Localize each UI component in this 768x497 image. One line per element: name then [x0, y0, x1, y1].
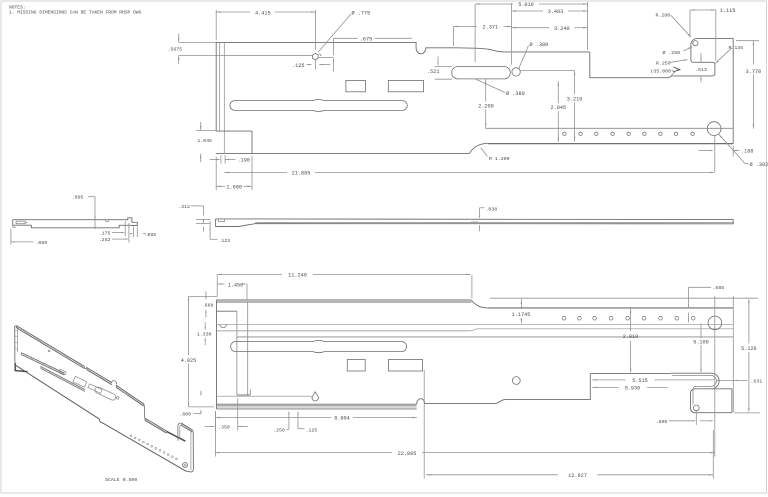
svg-text:(35.000°: (35.000°: [651, 68, 675, 74]
svg-text:NOTES:: NOTES:: [9, 4, 26, 10]
isometric view: small hole: [48, 350, 50, 352]
dim 21.885: [224, 171, 287, 173]
svg-text:.125: .125: [306, 427, 318, 433]
svg-text:Ø .775: Ø .775: [352, 10, 371, 17]
bottom view: hole D.302 mirror: [708, 316, 722, 330]
dim 1.450: [217, 283, 224, 285]
svg-text:SCALE 0.500: SCALE 0.500: [105, 477, 137, 483]
svg-text:Ø .250: Ø .250: [663, 49, 681, 56]
dim 2.371: [453, 26, 477, 28]
bottom view: inner line connector: [470, 329, 479, 331]
dim 1.330: [204, 322, 206, 329]
bottom view: step up at right: [589, 374, 591, 400]
svg-text:2.819: 2.819: [623, 334, 639, 340]
bottom view: rectangular cutout 1: [347, 360, 365, 372]
isometric view: thin slot 1 hatched: [21, 353, 64, 373]
svg-text:5.126: 5.126: [741, 346, 757, 352]
dim 3.483: [511, 10, 543, 12]
svg-text:.5675: .5675: [168, 46, 183, 52]
bottom view: keyhole cutout: [312, 392, 318, 401]
left edge view: inner tick: [25, 222, 27, 224]
bottom view: bottom edge right of bump: [425, 400, 591, 404]
svg-text:.252: .252: [99, 237, 111, 243]
dim 2.045 vertical: [557, 81, 559, 103]
isometric view: bottom edge: [15, 365, 186, 471]
dim .668: [205, 291, 207, 298]
bottom view: flange edge lines: [217, 395, 312, 397]
left view extension ticks: [124, 221, 126, 236]
dim 3.770 vertical: [736, 40, 759, 42]
bottom view: hook curl outer: [671, 373, 732, 413]
bottom view: top edge double line left portion: [217, 299, 472, 301]
isometric view: top folded edge hatched segment 3: [116, 385, 144, 404]
svg-text:.085: .085: [145, 232, 157, 238]
isometric view: small rect c: [88, 384, 102, 394]
svg-text:.521: .521: [427, 69, 439, 75]
isometric view: top folded edge hatched segment 5: [182, 423, 193, 430]
top view: rectangular cutout 1: [346, 80, 366, 91]
bottom view: inner line dark left: [217, 330, 470, 332]
isometric view: small rect b: [73, 376, 87, 387]
bottom view: small u-notch: [220, 324, 227, 327]
dim .5675: [179, 41, 217, 43]
leader D.380 upper: [519, 46, 529, 69]
isometric view: top folded edge hatched segment 2: [87, 368, 112, 383]
svg-text:1.450: 1.450: [228, 283, 244, 289]
dim 1.1745 vertical: [520, 299, 522, 309]
top view: small pierced hole at flange end: [312, 53, 318, 60]
left edge view: left end tab: [13, 225, 16, 227]
svg-text:.095: .095: [72, 195, 84, 201]
svg-text:1. MISSING DIMENSIONS CAN BE T: 1. MISSING DIMENSIONS CAN BE TAKEN FROM …: [9, 10, 142, 16]
top view: right edge: [732, 38, 734, 143]
slot extension lines: [434, 66, 452, 68]
isometric view: right end cap: [186, 430, 193, 472]
dim 11.240: [217, 274, 282, 276]
svg-text:1.1745: 1.1745: [512, 312, 531, 318]
dim .123: [209, 221, 211, 239]
bottom view: bend line light: [217, 323, 734, 325]
dim .521: [437, 56, 439, 64]
bottom view: rectangular cutout 2: [389, 360, 423, 372]
top view: rectangular cutout 2: [388, 80, 423, 91]
isometric view: top edge tab bump: [112, 381, 117, 385]
isometric view: step at right: [144, 404, 145, 418]
dim 1.045: [196, 130, 216, 132]
dim .631: [717, 380, 721, 381]
isometric view: stadium slot: [95, 387, 116, 400]
dim .038: [479, 208, 481, 218]
isometric view: hook curl: [178, 423, 181, 441]
dim .089: [10, 229, 12, 245]
isometric view: hook arm lower edge thick: [167, 431, 186, 441]
bottom view: tab bump: [417, 399, 425, 404]
svg-text:.188: .188: [741, 149, 753, 155]
svg-text:3.210: 3.210: [567, 96, 583, 102]
top view: row of small holes: [563, 132, 566, 135]
svg-text:22.885: 22.885: [398, 451, 417, 457]
svg-text:11.240: 11.240: [288, 273, 307, 279]
dim 3.210 vertical: [574, 71, 576, 95]
extension line from hole D.380 to 3.210: [520, 70, 574, 72]
bottom view: inner line right: [478, 328, 733, 330]
left edge view: inner flange rectangle: [16, 221, 25, 224]
top view: bend line left 2: [223, 42, 225, 153]
svg-text:.125: .125: [292, 63, 304, 69]
dim 5.936: [592, 387, 597, 389]
svg-text:R.135: R.135: [729, 45, 744, 51]
isometric view: left flange tab thick L: [15, 363, 27, 372]
left edge view: mid notch tick: [106, 220, 109, 222]
top view: left edge: [215, 42, 217, 131]
dim .188: [699, 149, 713, 151]
dim 1.115: [690, 9, 716, 11]
svg-text:.350: .350: [218, 425, 230, 431]
top view: foot right edge: [251, 131, 253, 154]
svg-text:8.904: 8.904: [334, 416, 350, 422]
svg-text:5.100: 5.100: [693, 339, 709, 345]
bottom view: bend line dark: [237, 336, 733, 338]
dim .513: [700, 53, 702, 63]
dim 4.415: [216, 11, 315, 13]
top view: slot cutout right (stadium): [452, 67, 511, 79]
isometric view: top folded edge hatched segment 1: [16, 326, 84, 367]
leader D.302: [718, 134, 745, 164]
svg-text:.250: .250: [273, 427, 285, 433]
svg-text:R 1.200: R 1.200: [489, 156, 510, 162]
dim 8.904: [216, 417, 332, 419]
dim 2.819 vertical: [630, 308, 632, 331]
top view: flange inner line: [216, 55, 312, 57]
isometric view: top folded edge hatched segment 4: [145, 418, 167, 431]
svg-text:.805: .805: [656, 419, 668, 425]
long edge view: left notch: [218, 219, 224, 222]
dim 2.200 vertical: [485, 79, 487, 101]
long edge view: bottom line right portion: [255, 222, 733, 224]
dim 5.010: [475, 3, 513, 5]
svg-text:3.483: 3.483: [548, 9, 564, 15]
svg-text:1.045: 1.045: [197, 138, 212, 144]
top view: right step notch outline: [590, 38, 733, 77]
svg-text:1.115: 1.115: [720, 8, 736, 14]
dim 5.126 vertical: [748, 300, 750, 344]
svg-text:.312: .312: [178, 204, 190, 210]
bottom view: long center slot: [231, 340, 407, 352]
isometric view: keyhole circle: [116, 397, 119, 400]
svg-text:1.330: 1.330: [197, 332, 212, 338]
top view: long center slot: [230, 100, 407, 112]
bottom view: hook arm top edge: [590, 373, 670, 375]
long edge view: strip outline: [216, 219, 734, 227]
dim 3.240: [511, 27, 549, 29]
svg-text:Ø .380: Ø .380: [530, 41, 549, 48]
svg-text:12.927: 12.927: [568, 473, 587, 479]
svg-text:.089: .089: [36, 240, 48, 246]
bottom view: left edge: [216, 300, 218, 409]
top view: bottom edge right portion: [488, 143, 733, 145]
svg-text:2.200: 2.200: [478, 104, 494, 110]
svg-text:2.045: 2.045: [551, 105, 567, 111]
dim .675: [334, 37, 358, 39]
dim .190: [210, 159, 219, 161]
svg-text:.038: .038: [486, 206, 498, 212]
dim 5.100 vertical: [700, 324, 702, 339]
dim 22.885: [215, 452, 392, 454]
svg-text:5.936: 5.936: [625, 386, 641, 392]
svg-text:Ø .380: Ø .380: [506, 90, 525, 97]
svg-text:.631: .631: [751, 379, 763, 385]
leader D.380 lower: [475, 79, 505, 93]
bottom view: hook plate hole: [693, 405, 699, 411]
top view: bottom edge left portion: [216, 152, 470, 154]
svg-text:R.280: R.280: [656, 13, 671, 19]
leader D.775: [318, 14, 351, 52]
dim 12.927: [426, 474, 558, 476]
svg-text:.668: .668: [202, 302, 214, 308]
isometric view: small rect tab a: [59, 369, 66, 374]
svg-text:R.250: R.250: [656, 60, 671, 66]
svg-text:21.885: 21.885: [292, 171, 311, 177]
isometric view: end hole annulus: [183, 462, 188, 467]
bottom view: top edge right portion: [487, 307, 733, 309]
svg-text:4.925: 4.925: [181, 358, 197, 364]
svg-text:4.415: 4.415: [255, 11, 271, 17]
svg-text:.190: .190: [238, 158, 250, 164]
svg-text:.685: .685: [713, 285, 725, 291]
svg-text:3.770: 3.770: [746, 69, 762, 75]
bottom view: foot lines: [217, 310, 237, 312]
svg-text:Ø .302: Ø .302: [750, 161, 768, 168]
svg-text:.513: .513: [695, 67, 707, 73]
svg-text:.175: .175: [99, 230, 111, 236]
top view: bend line left 1: [219, 42, 221, 131]
top view: hole D.302: [707, 122, 721, 136]
long extension lines between views: [714, 136, 716, 173]
svg-text:.675: .675: [360, 36, 372, 42]
isometric view: row of holes: [130, 435, 132, 437]
isometric view: left end tick marks: [15, 330, 18, 349]
svg-text:.123: .123: [219, 238, 231, 244]
svg-text:.600: .600: [179, 412, 191, 418]
leader R1.200: [481, 148, 488, 157]
dim .350: [205, 426, 214, 428]
svg-text:2.371: 2.371: [483, 25, 499, 31]
svg-text:3.240: 3.240: [554, 26, 570, 32]
bottom view: row of small holes: [562, 316, 566, 320]
dim 5.515: [592, 379, 597, 381]
isometric view: thin slot 2 hatched: [41, 366, 85, 389]
top view: hole D.380: [512, 68, 520, 76]
svg-text:5.515: 5.515: [632, 378, 648, 384]
bottom view: hook curl inner: [672, 375, 716, 404]
top view: fillet R1.200: [470, 143, 489, 153]
dim 4.415 extension lines: [215, 10, 217, 40]
isometric view: top edge notch: [84, 366, 87, 369]
bottom view: hole near center right: [512, 377, 520, 385]
svg-text:5.010: 5.010: [518, 2, 534, 8]
top view: hole D.250 in tab: [693, 41, 698, 46]
left edge view: strip outline: [13, 218, 138, 228]
top view: bend line of lower flange: [485, 127, 733, 129]
dim 1.600: [216, 185, 225, 187]
top view: foot top edge: [216, 130, 252, 132]
isometric view: left end cap: [15, 326, 17, 365]
isometric view: right end inner edge: [190, 432, 192, 470]
dim 4.925 vertical: [188, 296, 190, 355]
bottom view: extension line along top: [490, 297, 758, 299]
top view: part top edge with notch and steps: [216, 42, 590, 53]
bottom view: fillet to right top edge: [471, 301, 487, 308]
svg-text:1.600: 1.600: [226, 184, 242, 190]
